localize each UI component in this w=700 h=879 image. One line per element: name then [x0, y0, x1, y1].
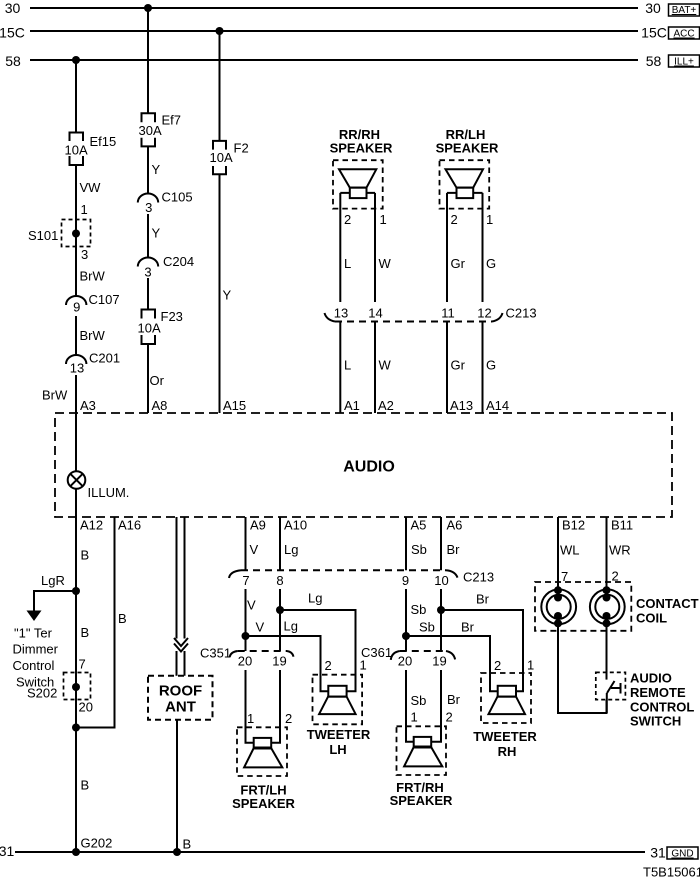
svg-text:A8: A8	[152, 398, 168, 413]
svg-text:12: 12	[477, 306, 491, 321]
svg-text:Br: Br	[447, 692, 461, 707]
svg-text:G: G	[486, 256, 496, 271]
svg-text:C351: C351	[200, 646, 231, 661]
svg-text:10A: 10A	[65, 143, 88, 158]
svg-text:C213: C213	[506, 306, 537, 321]
svg-text:C213: C213	[463, 570, 494, 585]
svg-text:Gr: Gr	[451, 256, 466, 271]
svg-text:Sb: Sb	[411, 693, 427, 708]
svg-text:LH: LH	[329, 742, 346, 757]
svg-text:1: 1	[380, 212, 387, 227]
svg-text:15C: 15C	[641, 25, 667, 41]
svg-text:7: 7	[79, 657, 86, 672]
svg-text:RH: RH	[498, 744, 517, 759]
svg-text:ILLUM.: ILLUM.	[88, 485, 130, 500]
svg-text:B: B	[183, 837, 192, 852]
svg-text:WR: WR	[609, 543, 631, 558]
svg-text:B11: B11	[611, 518, 633, 533]
svg-text:LgR: LgR	[41, 573, 65, 588]
svg-text:W: W	[379, 358, 392, 373]
svg-text:V: V	[250, 542, 259, 557]
svg-text:AUDIO: AUDIO	[343, 459, 395, 476]
svg-text:A16: A16	[118, 518, 141, 533]
svg-text:30: 30	[5, 0, 21, 16]
svg-text:31: 31	[0, 843, 14, 859]
svg-text:A12: A12	[80, 518, 103, 533]
svg-text:A10: A10	[284, 518, 307, 533]
svg-text:A13: A13	[450, 398, 473, 413]
svg-text:GND: GND	[671, 849, 693, 860]
svg-text:BrW: BrW	[42, 388, 68, 403]
svg-text:F23: F23	[161, 309, 183, 324]
svg-text:58: 58	[5, 53, 21, 69]
svg-text:Br: Br	[476, 592, 490, 607]
svg-text:11: 11	[441, 306, 455, 321]
svg-text:S202: S202	[27, 686, 57, 701]
svg-text:ACC: ACC	[673, 29, 694, 40]
svg-text:BrW: BrW	[80, 269, 106, 284]
svg-text:19: 19	[432, 654, 446, 669]
svg-text:30: 30	[645, 0, 661, 16]
svg-text:SPEAKER: SPEAKER	[390, 793, 453, 808]
svg-text:10A: 10A	[210, 150, 233, 165]
svg-text:10: 10	[434, 573, 448, 588]
svg-text:B: B	[81, 778, 90, 793]
svg-text:"1" Ter: "1" Ter	[14, 626, 53, 641]
svg-text:B: B	[81, 625, 90, 640]
svg-text:W: W	[379, 256, 392, 271]
svg-text:1: 1	[247, 711, 254, 726]
svg-text:2: 2	[325, 658, 332, 673]
svg-text:13: 13	[334, 306, 348, 321]
svg-text:C201: C201	[89, 351, 120, 366]
svg-text:CONTROL: CONTROL	[630, 700, 694, 715]
svg-text:AUDIO: AUDIO	[630, 671, 672, 686]
svg-text:Or: Or	[150, 373, 165, 388]
svg-text:20: 20	[398, 654, 412, 669]
svg-text:58: 58	[646, 53, 662, 69]
svg-text:Ef15: Ef15	[90, 134, 117, 149]
svg-text:1: 1	[486, 212, 493, 227]
svg-text:B12: B12	[562, 518, 585, 533]
svg-text:COIL: COIL	[636, 611, 667, 626]
svg-text:F2: F2	[234, 141, 249, 156]
svg-text:13: 13	[70, 361, 84, 376]
svg-text:SWITCH: SWITCH	[630, 714, 681, 729]
svg-text:Sb: Sb	[411, 602, 427, 617]
svg-text:A3: A3	[80, 398, 96, 413]
svg-text:A15: A15	[223, 398, 246, 413]
svg-text:9: 9	[73, 300, 80, 315]
svg-text:Dimmer: Dimmer	[13, 642, 59, 657]
svg-text:TWEETER: TWEETER	[473, 729, 537, 744]
svg-text:Br: Br	[447, 542, 461, 557]
svg-text:3: 3	[145, 200, 152, 215]
svg-text:C361: C361	[361, 645, 392, 660]
svg-text:ILL+: ILL+	[674, 57, 694, 68]
svg-text:SPEAKER: SPEAKER	[436, 141, 499, 156]
svg-text:Sb: Sb	[419, 620, 435, 635]
svg-text:L: L	[344, 358, 351, 373]
svg-text:8: 8	[276, 573, 283, 588]
svg-text:A9: A9	[250, 518, 266, 533]
svg-text:Lg: Lg	[284, 619, 298, 634]
svg-text:A1: A1	[344, 398, 360, 413]
svg-text:2: 2	[285, 711, 292, 726]
svg-text:C105: C105	[162, 190, 193, 205]
svg-text:2: 2	[344, 212, 351, 227]
svg-text:10A: 10A	[138, 321, 161, 336]
svg-text:G202: G202	[81, 836, 113, 851]
svg-text:Gr: Gr	[451, 358, 466, 373]
svg-text:1: 1	[81, 202, 88, 217]
svg-text:T5B15061: T5B15061	[643, 865, 700, 879]
svg-text:A14: A14	[486, 398, 509, 413]
svg-text:A5: A5	[411, 518, 427, 533]
svg-text:CONTACT: CONTACT	[636, 596, 699, 611]
svg-text:L: L	[344, 256, 351, 271]
svg-text:SPEAKER: SPEAKER	[330, 141, 393, 156]
svg-text:Sb: Sb	[411, 542, 427, 557]
svg-text:2: 2	[612, 569, 619, 584]
svg-text:Lg: Lg	[284, 542, 298, 557]
svg-text:BrW: BrW	[80, 328, 106, 343]
svg-text:7: 7	[242, 573, 249, 588]
svg-text:3: 3	[144, 265, 151, 280]
svg-text:Ef7: Ef7	[162, 113, 182, 128]
svg-text:20: 20	[79, 700, 93, 715]
svg-text:V: V	[247, 598, 256, 613]
svg-text:S101: S101	[28, 228, 58, 243]
svg-text:30A: 30A	[139, 123, 162, 138]
svg-text:2: 2	[446, 710, 453, 725]
svg-text:31: 31	[650, 845, 666, 861]
svg-text:19: 19	[272, 654, 286, 669]
svg-text:2: 2	[451, 212, 458, 227]
svg-text:20: 20	[238, 654, 252, 669]
svg-text:C107: C107	[89, 292, 120, 307]
svg-text:Br: Br	[461, 620, 475, 635]
svg-text:G: G	[486, 358, 496, 373]
svg-text:15C: 15C	[0, 25, 25, 41]
svg-text:Lg: Lg	[308, 591, 322, 606]
svg-text:Control: Control	[13, 658, 55, 673]
svg-text:ROOF: ROOF	[159, 683, 202, 700]
svg-text:V: V	[256, 620, 265, 635]
svg-text:7: 7	[561, 569, 568, 584]
svg-text:B: B	[118, 611, 127, 626]
svg-text:Y: Y	[152, 162, 161, 177]
svg-text:Y: Y	[223, 288, 232, 303]
svg-text:C204: C204	[163, 254, 194, 269]
svg-text:3: 3	[81, 247, 88, 262]
svg-text:14: 14	[368, 306, 382, 321]
svg-text:A6: A6	[447, 518, 463, 533]
svg-text:B: B	[81, 548, 90, 563]
svg-text:TWEETER: TWEETER	[307, 727, 371, 742]
svg-text:1: 1	[527, 658, 534, 673]
svg-text:REMOTE: REMOTE	[630, 685, 686, 700]
svg-text:2: 2	[494, 658, 501, 673]
svg-text:BAT+: BAT+	[672, 5, 697, 16]
svg-text:ANT: ANT	[165, 699, 196, 716]
svg-text:SPEAKER: SPEAKER	[232, 796, 295, 811]
svg-text:A2: A2	[378, 398, 394, 413]
svg-text:1: 1	[411, 710, 418, 725]
svg-text:VW: VW	[80, 180, 102, 195]
svg-text:Y: Y	[152, 226, 161, 241]
svg-text:9: 9	[402, 573, 409, 588]
svg-text:WL: WL	[560, 543, 580, 558]
